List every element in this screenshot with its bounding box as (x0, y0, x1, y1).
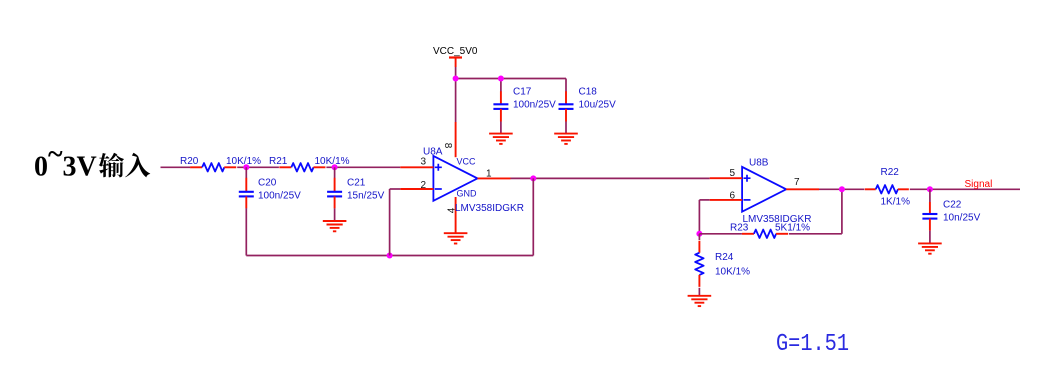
wire C21 to ground (334, 208, 336, 221)
wire C22 to ground (929, 231, 931, 244)
junction: node R23/R24 (696, 231, 702, 237)
capacitor C18 (559, 91, 574, 121)
svg-text:R20: R20 (180, 156, 199, 167)
wire feedback up (389, 189, 391, 256)
capacitor C17 (493, 91, 508, 121)
junction: node U8A output (530, 175, 536, 181)
wire to C21 (334, 167, 336, 178)
svg-text:10u/25V: 10u/25V (579, 100, 617, 111)
svg-text:0: 0 (34, 152, 48, 183)
junction: node feedback tee (387, 253, 393, 259)
svg-text:C21: C21 (347, 178, 366, 189)
svg-text:5K1/1%: 5K1/1% (775, 223, 810, 234)
svg-text:GND: GND (457, 189, 478, 199)
svg-text:C22: C22 (943, 200, 962, 211)
svg-text:1K/1%: 1K/1% (881, 197, 911, 208)
svg-text:6: 6 (729, 191, 735, 202)
svg-text:1: 1 (486, 169, 492, 180)
svg-text:10K/1%: 10K/1% (715, 267, 750, 278)
resistor R20 (190, 163, 236, 171)
svg-text:Signal: Signal (965, 179, 993, 190)
ground (554, 134, 578, 144)
svg-text:VCC_5V0: VCC_5V0 (433, 46, 478, 57)
wire to R23 (699, 233, 742, 235)
svg-text:R24: R24 (715, 252, 734, 263)
wire R24 to ground (698, 288, 700, 296)
svg-text:10K/1%: 10K/1% (315, 156, 350, 167)
junction: VCC rail at C17 (498, 76, 504, 82)
svg-text:LMV358IDGKR: LMV358IDGKR (455, 203, 524, 214)
wire to U8B pin 6 (699, 199, 709, 201)
ground (489, 134, 513, 144)
svg-text:U8B: U8B (749, 158, 769, 169)
wire to Signal output (910, 188, 1020, 190)
capacitor C22 (922, 202, 937, 231)
svg-text:15n/25V: 15n/25V (347, 191, 385, 202)
wire C17 to ground (500, 122, 502, 134)
wire R23 to feedback corner (789, 233, 842, 235)
ground (918, 243, 942, 253)
svg-text:10K/1%: 10K/1% (226, 156, 261, 167)
wire VCC down to U8A pin 8 (455, 79, 457, 123)
wire U8B out (819, 188, 864, 190)
svg-text:5: 5 (729, 168, 735, 179)
wire to C22 (929, 189, 931, 202)
ground (688, 296, 712, 306)
op-amp U8A LMV358IDGKR (400, 122, 510, 233)
wire feedback bottom (246, 255, 533, 257)
wire feedback down (532, 178, 534, 255)
junction: node after R20 (243, 164, 249, 170)
junction: VCC rail left (453, 76, 459, 82)
wire U8A out to U8B pin 5 (511, 177, 710, 179)
svg-text:C17: C17 (513, 87, 532, 98)
svg-text:VCC: VCC (457, 157, 477, 167)
resistor R22 (865, 185, 909, 193)
ground (323, 221, 347, 231)
wire (455, 67, 457, 79)
wire C18 drop (565, 79, 567, 92)
capacitor C20 (239, 178, 254, 209)
resistor R23 (742, 230, 788, 238)
svg-text:2: 2 (420, 180, 426, 191)
ground (444, 233, 468, 243)
op-amp U8B LMV358IDGKR (710, 167, 819, 212)
svg-text:C20: C20 (258, 178, 277, 189)
junction: node Signal (927, 186, 933, 192)
wire to C20 (245, 167, 247, 178)
resistor R21 (279, 163, 325, 171)
wire input (161, 166, 191, 168)
svg-text:4: 4 (446, 207, 457, 213)
svg-text:C18: C18 (579, 87, 598, 98)
resistor R24 (695, 241, 703, 287)
svg-text:R22: R22 (881, 167, 900, 178)
power symbol VCC_5V0 (433, 46, 478, 67)
wire C17 drop (500, 79, 502, 92)
junction: node after R21 (332, 164, 338, 170)
wire VCC rail (456, 78, 566, 80)
svg-text:10n/25V: 10n/25V (943, 213, 981, 224)
svg-text:100n/25V: 100n/25V (258, 191, 301, 202)
capacitor C21 (327, 178, 342, 209)
wire C18 to ground (565, 122, 567, 134)
svg-text:R23: R23 (730, 223, 749, 234)
svg-text:8: 8 (442, 143, 453, 149)
wire pin6 down (698, 200, 700, 234)
wire node2 to U8A pin 3 (326, 166, 400, 168)
wire node1 to R21 (237, 166, 279, 168)
input label text "0~3V输入" (34, 139, 150, 183)
svg-text:3: 3 (420, 157, 426, 168)
svg-text:R21: R21 (269, 156, 288, 167)
svg-text:G=1.51: G=1.51 (776, 331, 849, 358)
svg-text:~: ~ (48, 139, 63, 170)
wire to U8A pin 2 (390, 188, 401, 190)
wire junction to R24 (698, 234, 700, 240)
junction: node U8B output (839, 186, 845, 192)
svg-text:7: 7 (794, 177, 800, 188)
wire feedback up to output (841, 189, 843, 234)
svg-text:3V: 3V (63, 152, 97, 183)
svg-text:100n/25V: 100n/25V (513, 100, 556, 111)
wire C20 to feedback (245, 208, 247, 255)
